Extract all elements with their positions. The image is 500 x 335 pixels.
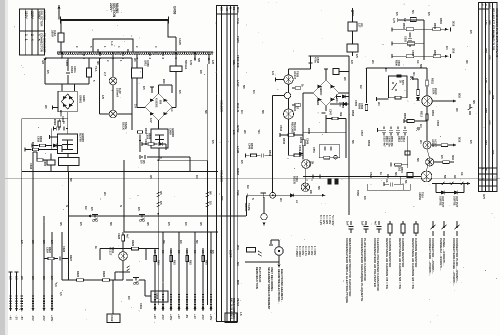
wire <box>402 184 404 190</box>
svg-text:D10+N: D10+N <box>236 103 240 112</box>
svg-text:3/5: 3/5 <box>146 222 150 226</box>
svg-text:3/0: 3/0 <box>472 100 476 104</box>
svg-text:R513: R513 <box>420 111 423 117</box>
svg-text:C543: C543 <box>279 125 283 132</box>
svg-text:12V: 12V <box>149 118 153 123</box>
wire <box>336 96 341 98</box>
wire <box>61 146 63 153</box>
label T607 <box>293 103 300 112</box>
svg-text:1/0: 1/0 <box>127 296 131 300</box>
legend text <box>428 238 435 276</box>
wire <box>346 96 349 98</box>
transistor T611 <box>302 160 311 169</box>
label NTC <box>399 80 406 85</box>
svg-text:2/4: 2/4 <box>103 192 107 196</box>
wire <box>384 183 389 185</box>
wire long <box>272 96 274 193</box>
label R549 <box>299 137 303 144</box>
svg-text:2/4: 2/4 <box>371 60 375 64</box>
svg-text:R518: R518 <box>351 110 355 117</box>
rail <box>303 176 421 178</box>
wire <box>206 160 208 305</box>
resistor R502 <box>406 28 414 31</box>
winding tap 10 <box>194 52 196 56</box>
resistor R <box>202 256 205 262</box>
svg-text:1/4: 1/4 <box>271 71 275 75</box>
wire <box>44 66 46 84</box>
wire <box>53 128 56 130</box>
svg-text:150mA: 150mA <box>115 88 119 97</box>
svg-text:SEULEMENT ENREGISTREMENT: SEULEMENT ENREGISTREMENT <box>267 267 271 310</box>
wire <box>167 20 169 37</box>
wire <box>392 55 406 57</box>
label C546 <box>314 57 321 64</box>
wire <box>159 84 173 86</box>
resistor R542 <box>295 104 301 107</box>
capacitor C521 <box>319 175 321 179</box>
wire <box>280 134 303 136</box>
svg-text:55: 55 <box>232 7 236 11</box>
wire <box>302 100 304 160</box>
svg-text:GR60: GR60 <box>82 95 86 102</box>
rail <box>432 183 469 185</box>
resistor R507 <box>433 55 441 58</box>
svg-text:100n: 100n <box>73 66 77 73</box>
bridge rectifier GR601 <box>62 94 74 109</box>
svg-text:1nF: 1nF <box>346 221 350 226</box>
svg-text:3/16: 3/16 <box>452 48 456 54</box>
wire <box>22 118 68 120</box>
svg-text:FWR: FWR <box>236 36 240 44</box>
wire <box>288 84 290 92</box>
legend text <box>439 238 446 271</box>
label R546 <box>248 143 255 150</box>
svg-text:2/0: 2/0 <box>133 58 137 62</box>
label headphone <box>277 269 284 304</box>
terminal bar <box>387 174 389 178</box>
terminal <box>32 308 35 311</box>
capacitor C551 <box>324 147 326 151</box>
winding tap 5 <box>175 52 177 56</box>
connector ticks <box>15 304 17 309</box>
label GR606 <box>168 128 175 137</box>
wire <box>126 279 133 281</box>
scan edge strip <box>0 0 5 335</box>
svg-text:L4F: L4F <box>484 20 488 25</box>
wire <box>463 184 465 193</box>
wire <box>115 271 130 273</box>
connector ticks <box>210 295 212 300</box>
wire <box>352 52 354 56</box>
wire <box>154 248 156 308</box>
link box3 <box>407 173 413 178</box>
svg-text:1-4: 1-4 <box>110 41 114 46</box>
wire <box>172 107 176 109</box>
svg-text:1/4: 1/4 <box>445 46 449 50</box>
resistor R616 <box>40 144 46 147</box>
resistor R625 <box>77 279 84 282</box>
svg-text:GR4: GR4 <box>316 100 320 106</box>
wire <box>122 272 124 280</box>
svg-text:187K: 187K <box>431 88 435 94</box>
svg-text:2/0: 2/0 <box>343 77 347 81</box>
resistor R541 <box>295 87 301 90</box>
wire <box>88 58 90 68</box>
connector ticks <box>43 296 45 301</box>
wire <box>46 145 53 147</box>
svg-text:BW: BW <box>220 196 224 201</box>
rail <box>62 279 123 281</box>
link box <box>410 17 416 21</box>
label C506 <box>358 103 365 110</box>
wire <box>146 248 158 250</box>
terminal <box>453 144 456 147</box>
wire <box>401 164 407 166</box>
wire <box>53 107 59 109</box>
svg-text:1/2: 1/2 <box>403 18 407 22</box>
label 6,3V <box>115 88 122 97</box>
resistor R514 <box>441 144 448 147</box>
module box <box>151 291 168 302</box>
tap selector box <box>93 39 133 52</box>
svg-text:5/16: 5/16 <box>458 93 462 99</box>
wire <box>67 119 69 134</box>
terminal bar <box>15 271 19 273</box>
capacitor C546 <box>309 62 313 64</box>
svg-text:BD135: BD135 <box>293 176 297 185</box>
wire <box>302 93 304 100</box>
svg-text:2,7: 2,7 <box>103 72 107 76</box>
terminal <box>162 308 165 311</box>
svg-text:R63: R63 <box>189 260 193 265</box>
diode D21 <box>454 191 457 195</box>
svg-text:765: 765 <box>491 95 495 100</box>
connector ticks <box>9 304 11 309</box>
wire <box>175 37 177 51</box>
wire <box>175 56 177 66</box>
winding tap 2 <box>99 52 101 56</box>
terminal <box>9 308 12 311</box>
svg-text:1 - 1: 1 - 1 <box>24 34 28 41</box>
svg-text:F41,75,76,680/13: F41,75,76,680/13 <box>229 298 233 320</box>
transistor T654 <box>426 158 434 166</box>
resistor R624 <box>48 257 54 260</box>
svg-text:RESISTANCE AU CARBON 3/8: RESISTANCE AU CARBON 3/8 = 5% <box>411 238 415 289</box>
arrow mark <box>87 215 91 218</box>
svg-text:+15V: +15V <box>50 315 54 322</box>
wire <box>43 216 45 308</box>
connector ticks <box>202 302 204 307</box>
label MSL9AC/MSL9A <box>229 298 236 320</box>
wire <box>122 260 124 272</box>
wire <box>51 232 53 308</box>
svg-text:RESISTANCE AU CARBON 7/8: RESISTANCE AU CARBON 7/8 = 5% <box>385 238 389 289</box>
resistor R <box>186 256 189 262</box>
terminal <box>263 223 266 226</box>
wire <box>100 57 133 59</box>
svg-text:2/0: 2/0 <box>243 130 247 134</box>
svg-text:470u: 470u <box>314 57 318 63</box>
svg-text:T83,T93: T83,T93 <box>491 30 495 40</box>
svg-text:1/5: 1/5 <box>178 90 182 94</box>
wire <box>292 104 295 106</box>
wire <box>427 166 428 172</box>
svg-text:R550: R550 <box>307 128 311 135</box>
transistor stage box <box>348 22 357 31</box>
diode D12 <box>343 102 346 106</box>
wire <box>436 192 464 194</box>
svg-text:2/0: 2/0 <box>44 105 48 109</box>
wire <box>426 68 428 79</box>
legend text <box>411 238 418 289</box>
wire <box>122 241 124 252</box>
label TAPE <box>244 203 251 212</box>
wire <box>246 154 250 156</box>
label contact list <box>383 136 393 147</box>
terminal bar <box>49 135 51 139</box>
label AC187 <box>431 139 438 148</box>
wire <box>288 69 290 75</box>
wire <box>168 36 176 38</box>
svg-text:1/5: 1/5 <box>79 222 83 226</box>
capacitor C610 <box>139 140 141 144</box>
svg-text:1/5: 1/5 <box>159 201 163 205</box>
svg-text:3,5: 3,5 <box>59 292 63 296</box>
label C505 <box>339 102 346 109</box>
svg-text:R626: R626 <box>102 271 106 278</box>
svg-text:REPRODUCTION: REPRODUCTION <box>255 267 259 289</box>
winding tap 7 <box>136 52 138 56</box>
svg-text:RESISTANCE AU CARBON 5/8: RESISTANCE AU CARBON 5/8 = 5% <box>398 238 402 289</box>
svg-text:T1A: T1A <box>94 66 98 72</box>
wire <box>147 156 190 158</box>
svg-text:5/6: 5/6 <box>109 222 113 226</box>
module C612 <box>107 314 120 323</box>
wire <box>112 308 114 314</box>
wire <box>435 184 437 193</box>
svg-text:-15V: -15V <box>201 314 205 320</box>
svg-text:R511: R511 <box>431 110 435 117</box>
svg-text:1/2: 1/2 <box>246 185 250 189</box>
wire <box>394 183 403 185</box>
svg-text:PANNEAU .../FRONT/...: PANNEAU .../FRONT/... <box>439 238 443 271</box>
terminal bar <box>450 27 452 31</box>
svg-text:C549: C549 <box>306 138 310 145</box>
connector ticks <box>51 296 53 301</box>
wire <box>157 160 159 305</box>
svg-text:4/5: 4/5 <box>149 175 153 179</box>
svg-text:1/5: 1/5 <box>167 222 171 226</box>
wire <box>58 5 60 20</box>
wire <box>246 195 248 216</box>
terminal bar <box>52 106 54 110</box>
svg-text:R511: R511 <box>431 78 435 85</box>
wire <box>136 78 138 108</box>
resistor R546 <box>251 154 257 157</box>
label R624 <box>46 247 53 254</box>
switch S2c <box>133 278 139 285</box>
svg-text:C520: C520 <box>369 172 373 179</box>
terminal <box>20 308 23 311</box>
svg-text:+4V: +4V <box>153 314 157 319</box>
wire <box>431 144 441 146</box>
svg-text:1/2: 1/2 <box>15 276 19 280</box>
bridge rectifier GR3 B30C750 <box>145 94 172 121</box>
svg-text:R63: R63 <box>173 260 177 265</box>
svg-text:3/0: 3/0 <box>31 240 35 244</box>
arrow mark <box>410 77 413 80</box>
wire <box>54 258 58 260</box>
wire <box>158 121 160 130</box>
rail <box>69 215 247 217</box>
terminal <box>202 308 205 311</box>
svg-text:C619: C619 <box>146 133 150 140</box>
bridge GR601 box <box>58 91 77 111</box>
svg-text:1/5: 1/5 <box>142 86 146 90</box>
wire <box>414 120 427 122</box>
transistor T655 <box>421 171 432 182</box>
wire <box>414 28 433 30</box>
wire <box>36 159 38 161</box>
svg-text:MSC: MSC <box>487 4 491 10</box>
wire dashed <box>407 136 409 168</box>
wire <box>50 154 52 161</box>
connector ticks <box>32 304 34 309</box>
svg-text:1/5: 1/5 <box>469 140 473 144</box>
wire <box>43 159 51 161</box>
transistor T605 <box>284 75 293 84</box>
svg-text:1445: 1445 <box>178 38 182 45</box>
svg-text:1uF: 1uF <box>361 221 365 226</box>
svg-text:5/8: 5/8 <box>419 64 423 68</box>
svg-text:463: 463 <box>491 150 495 155</box>
terminal <box>186 308 189 311</box>
wire <box>67 112 69 119</box>
wire <box>399 177 401 185</box>
connector ticks <box>9 296 11 301</box>
svg-text:HELMETRE ELECTRONIC .: HELMETRE ELECTRONIC . <box>277 269 281 304</box>
svg-text:R63: R63 <box>205 260 209 265</box>
terminal <box>278 265 281 268</box>
svg-text:466: 466 <box>487 20 491 25</box>
svg-text:R627: R627 <box>69 255 73 262</box>
wire <box>210 232 212 308</box>
wire <box>409 184 411 190</box>
wire <box>36 152 38 160</box>
legend text <box>398 238 405 289</box>
wire <box>112 280 114 308</box>
terminal bar <box>391 41 393 45</box>
wire <box>178 232 180 308</box>
terminal bar <box>390 163 392 167</box>
svg-text:+15V: +15V <box>209 314 213 321</box>
svg-text:R502: R502 <box>402 23 405 29</box>
svg-text:5/6: 5/6 <box>69 178 73 182</box>
svg-text:1/4: 1/4 <box>252 90 256 94</box>
wire <box>311 55 350 57</box>
wire <box>58 119 60 121</box>
wire <box>288 119 290 132</box>
svg-text:220V: 220V <box>30 11 34 20</box>
svg-text:R519: R519 <box>367 140 371 147</box>
wire <box>170 248 172 308</box>
capacitor C606 <box>63 127 65 131</box>
svg-text:C547: C547 <box>329 109 333 116</box>
wire <box>88 77 90 84</box>
terminal bar <box>391 54 393 58</box>
svg-text:1/0: 1/0 <box>20 240 24 244</box>
svg-text:GR68: GR68 <box>173 6 177 15</box>
terminal <box>51 308 54 311</box>
regulator symbol <box>62 140 73 150</box>
terminal bar <box>9 271 13 273</box>
input box <box>333 69 339 75</box>
transistor T610 <box>301 183 309 191</box>
svg-text:SELECTOR: SELECTOR <box>40 11 44 28</box>
connector ticks <box>178 295 180 300</box>
wire <box>165 144 167 150</box>
svg-text:+15V: +15V <box>169 314 173 321</box>
wire <box>175 72 177 108</box>
wire <box>100 113 110 115</box>
wire <box>171 85 173 93</box>
switch contact <box>261 193 267 198</box>
legend text <box>345 238 352 303</box>
terminal bar <box>52 127 54 131</box>
wire <box>409 42 411 48</box>
wire <box>127 49 129 52</box>
terminal <box>44 59 47 62</box>
resistor R618 <box>37 159 43 162</box>
connector ticks <box>186 302 188 307</box>
resistor R <box>170 256 173 262</box>
svg-text:TAC: TAC <box>236 18 240 25</box>
svg-text:25u: 25u <box>339 102 343 107</box>
resistor R601 <box>33 148 39 151</box>
svg-text:AC188: AC188 <box>431 139 435 148</box>
svg-text:R508: R508 <box>403 113 406 119</box>
wire <box>263 197 265 213</box>
diode D14 <box>290 194 293 198</box>
filter box <box>59 158 80 166</box>
svg-text:1/0: 1/0 <box>50 240 54 244</box>
svg-text:SORTIE: SORTIE <box>453 196 457 206</box>
svg-text:500mA: 500mA <box>184 60 188 69</box>
connector ticks <box>32 296 34 301</box>
svg-text:1/4: 1/4 <box>419 124 423 128</box>
junction <box>145 248 147 250</box>
wire <box>417 79 419 90</box>
capacitor C503 <box>408 39 412 41</box>
svg-text:3/0: 3/0 <box>42 276 46 280</box>
svg-text:46B: 46B <box>484 48 488 53</box>
svg-text:C505: C505 <box>354 100 358 107</box>
legend text <box>385 238 392 289</box>
capacitor C520 <box>312 175 314 179</box>
capacitor C621 <box>144 155 146 159</box>
svg-text:R544: R544 <box>268 150 272 157</box>
svg-text:4u7: 4u7 <box>126 234 130 239</box>
svg-text:C628: C628 <box>117 233 121 240</box>
svg-text:R506: R506 <box>395 60 398 66</box>
svg-text:8 = 1,2V: 8 = 1,2V <box>319 215 323 225</box>
connector ticks <box>15 296 17 301</box>
transistor T607 <box>284 109 294 119</box>
svg-text:1/8: 1/8 <box>199 70 203 74</box>
svg-text:AD152: AD152 <box>418 192 422 201</box>
svg-text:R504: R504 <box>439 18 443 25</box>
svg-text:1/5: 1/5 <box>427 12 431 16</box>
